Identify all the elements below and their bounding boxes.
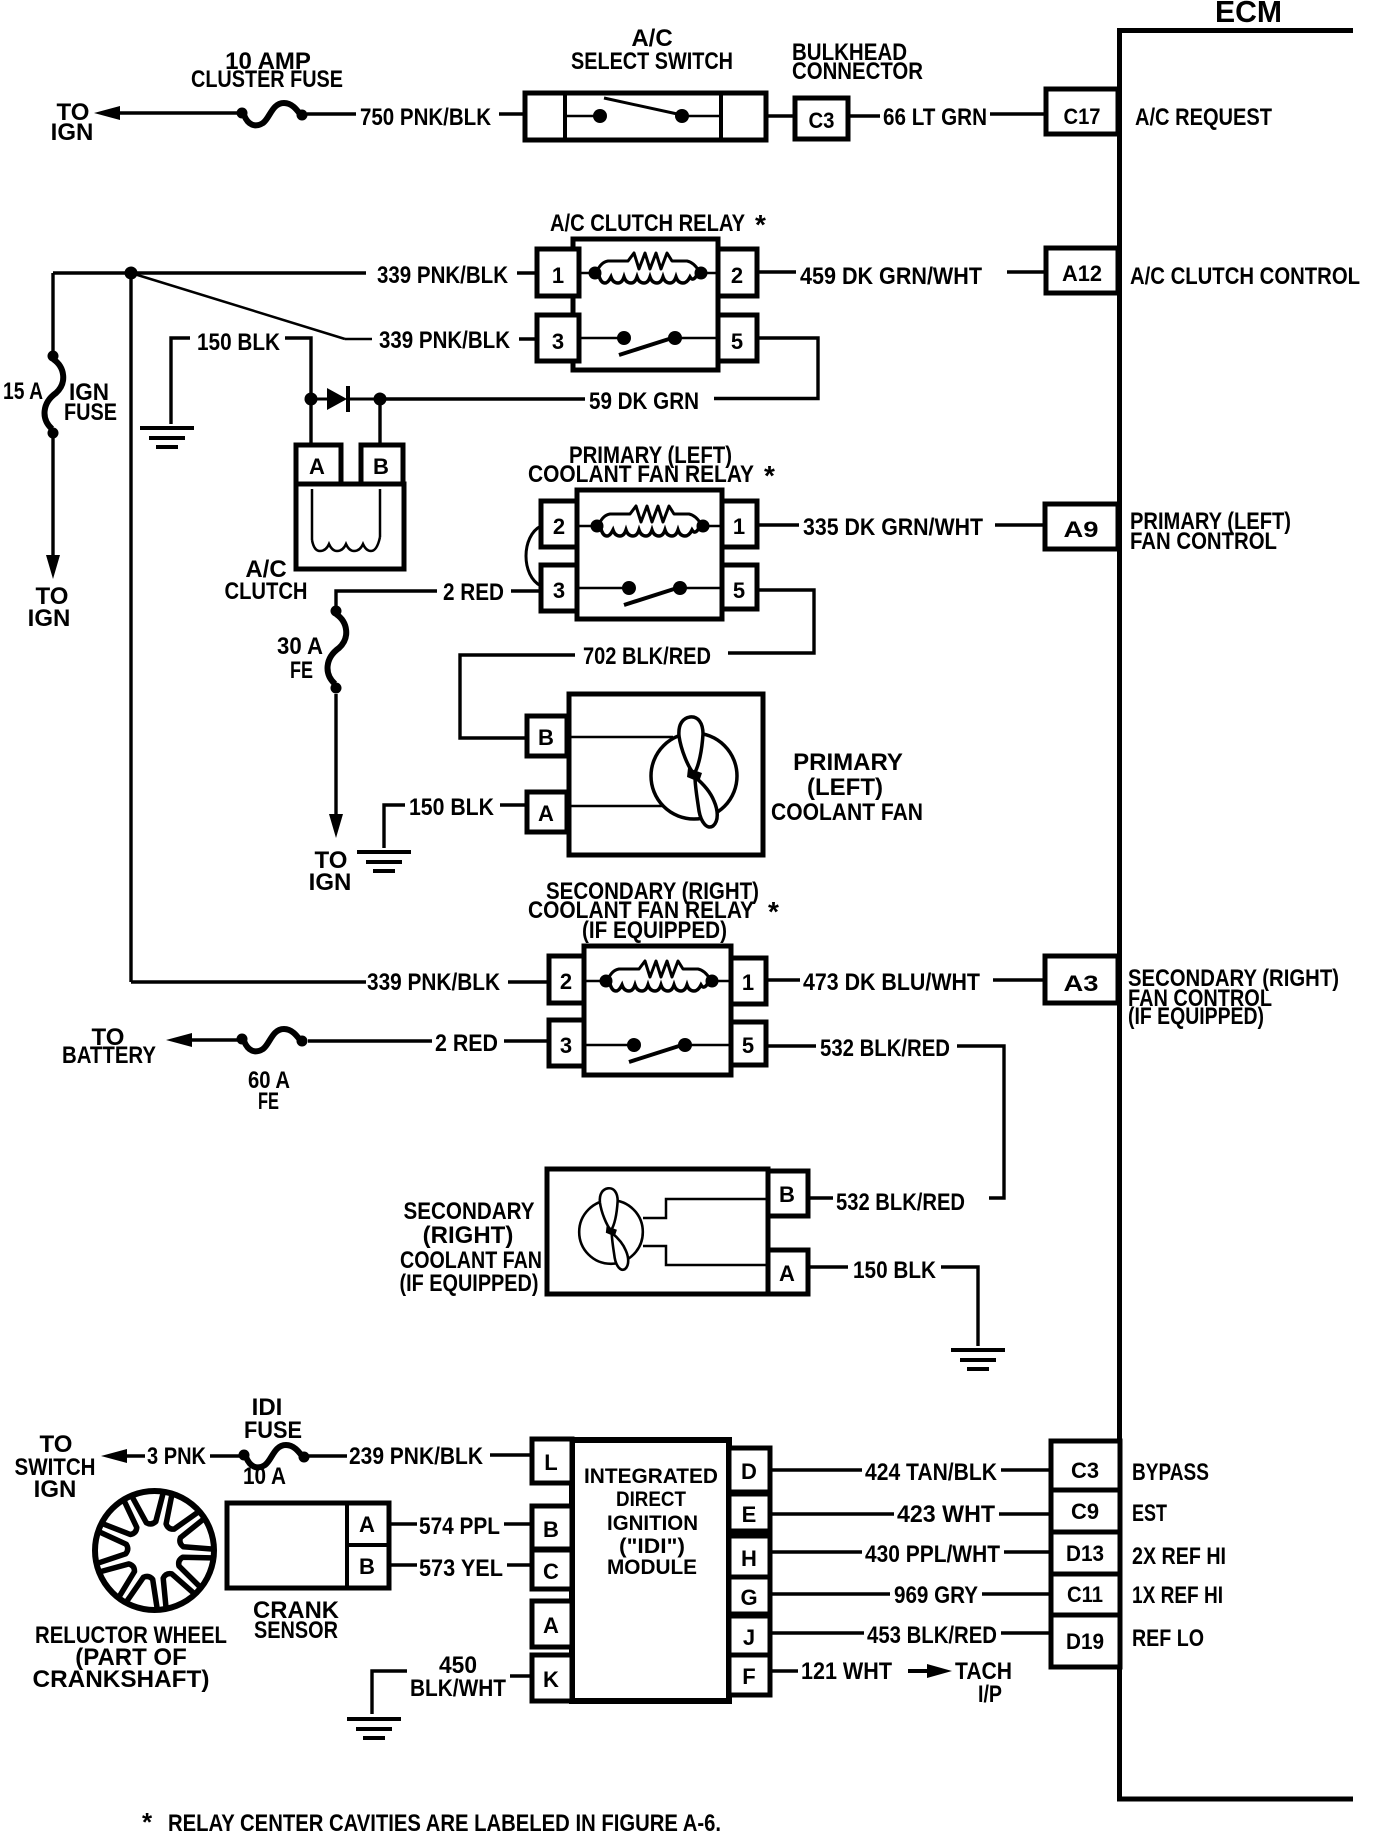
- wire 339 PNK/BLK long vertical feed: [129, 273, 132, 982]
- arrow to switch ign: [101, 1449, 127, 1463]
- svg-text:F: F: [742, 1664, 755, 1689]
- primary fan internal wiring: [567, 736, 673, 739]
- svg-text:COOLANT FAN: COOLANT FAN: [771, 799, 923, 826]
- svg-text:IGN: IGN: [309, 869, 352, 896]
- svg-text:EST: EST: [1132, 1500, 1167, 1527]
- junction node diode anode: [305, 393, 318, 406]
- svg-text:FUSE: FUSE: [64, 399, 117, 426]
- svg-text:2: 2: [731, 263, 743, 288]
- svg-text:D: D: [741, 1459, 757, 1484]
- wire diode node to clutch pin A: [309, 399, 312, 445]
- svg-text:15 A: 15 A: [3, 378, 43, 405]
- wire battery feed: [190, 1038, 242, 1041]
- svg-text:A: A: [538, 801, 554, 826]
- relay K1 pin 1: [537, 249, 579, 296]
- IDI pin E: [729, 1494, 770, 1531]
- wire 750 PNK/BLK: [307, 112, 356, 115]
- ECM connector C9 (EST): [1051, 1490, 1120, 1532]
- arrow to IGN: [94, 106, 120, 120]
- svg-text:3: 3: [560, 1033, 572, 1058]
- svg-text:A: A: [359, 1512, 375, 1537]
- wire 335 DK GRN/WHT to ECM A9: [757, 523, 799, 526]
- svg-text:SENSOR: SENSOR: [254, 1617, 338, 1644]
- wire 150 BLK to diode node: [285, 338, 311, 395]
- secondary fan pin B: [768, 1171, 808, 1216]
- wire 150 BLK secondary fan ground: [808, 1265, 848, 1268]
- wire 430 PPL/WHT to ECM D13: [770, 1550, 862, 1553]
- svg-text:339 PNK/BLK: 339 PNK/BLK: [367, 969, 501, 996]
- ECM connector D19 (REF LO): [1051, 1615, 1120, 1667]
- junction node 339 feed: [125, 267, 138, 280]
- wire 473 DK BLU/WHT to ECM A3: [766, 978, 800, 981]
- svg-text:2: 2: [553, 514, 565, 539]
- svg-text:339 PNK/BLK: 339 PNK/BLK: [379, 327, 511, 354]
- svg-text:59 DK GRN: 59 DK GRN: [589, 388, 699, 415]
- svg-text:E: E: [742, 1502, 757, 1527]
- svg-text:("IDI"): ("IDI"): [619, 1535, 685, 1558]
- IDI pin A: [532, 1601, 572, 1647]
- svg-text:B: B: [538, 725, 554, 750]
- svg-text:I/P: I/P: [978, 1681, 1002, 1708]
- svg-text:473 DK BLU/WHT: 473 DK BLU/WHT: [803, 969, 980, 996]
- IDI pin D: [729, 1448, 770, 1492]
- svg-text:REF LO: REF LO: [1132, 1625, 1204, 1652]
- svg-text:CLUTCH: CLUTCH: [225, 578, 308, 605]
- primary coolant fan motor body: [569, 694, 763, 855]
- wire 239 PNK/BLK to IDI pin L: [308, 1454, 347, 1457]
- A/C clutch pin A: [296, 445, 341, 484]
- svg-text:*: *: [768, 896, 779, 927]
- svg-text:C3: C3: [809, 108, 835, 133]
- svg-text:5: 5: [733, 578, 745, 603]
- IDI pin F: [729, 1655, 770, 1695]
- crank sensor body: [227, 1503, 389, 1588]
- ECM module outline: [1120, 31, 1354, 1800]
- relay K3 secondary fan relay body: [584, 946, 731, 1075]
- svg-text:(LEFT): (LEFT): [807, 774, 883, 801]
- wire 2 RED to primary fan relay pin 3: [336, 591, 437, 607]
- ECM connector A12: [1046, 248, 1118, 293]
- svg-text:IGN: IGN: [34, 1476, 77, 1503]
- relay K1 pin 5: [718, 315, 757, 361]
- svg-text:D13: D13: [1066, 1541, 1104, 1566]
- svg-text:K: K: [543, 1667, 559, 1692]
- svg-text:C9: C9: [1071, 1499, 1099, 1524]
- svg-text:IGNITION: IGNITION: [607, 1512, 698, 1535]
- svg-text:2 RED: 2 RED: [435, 1030, 498, 1057]
- svg-text:BYPASS: BYPASS: [1132, 1459, 1209, 1486]
- svg-text:423 WHT: 423 WHT: [897, 1501, 995, 1528]
- wire 969 GRY to ECM C11: [770, 1592, 890, 1595]
- svg-text:L: L: [544, 1450, 557, 1475]
- relay K3 pin 3: [549, 1020, 584, 1066]
- svg-text:PRIMARY: PRIMARY: [793, 749, 903, 776]
- svg-text:A9: A9: [1064, 517, 1099, 542]
- wire diode node to clutch pin B: [378, 399, 381, 445]
- relay K1 switch contacts: [579, 337, 624, 340]
- primary fan pin B: [527, 716, 567, 756]
- svg-text:1: 1: [742, 970, 754, 995]
- svg-text:SELECT SWITCH: SELECT SWITCH: [571, 48, 733, 75]
- IDI module U1 body: [572, 1440, 729, 1701]
- svg-text:3 PNK: 3 PNK: [147, 1443, 207, 1470]
- wire TO IGN to cluster fuse: [118, 111, 242, 114]
- svg-text:FE: FE: [258, 1088, 279, 1115]
- relay K1 pin 3: [537, 315, 579, 361]
- wire 339 PNK/BLK to relay pin 1: [53, 271, 366, 274]
- svg-text:C: C: [543, 1559, 559, 1584]
- wire feed to 15A IGN fuse: [51, 273, 54, 354]
- wire 532 BLK/RED at secondary fan pin B: [808, 1196, 833, 1199]
- IDI pin C: [532, 1550, 572, 1589]
- secondary coolant fan motor body: [547, 1169, 768, 1294]
- svg-text:B: B: [779, 1182, 795, 1207]
- IDI pin L: [532, 1439, 572, 1483]
- wire 532 BLK/RED down to secondary fan: [957, 1046, 1004, 1198]
- wire 453 BLK/RED to ECM D19: [770, 1631, 864, 1634]
- svg-text:A/C REQUEST: A/C REQUEST: [1135, 104, 1272, 131]
- svg-text:A: A: [779, 1261, 795, 1286]
- svg-text:B: B: [543, 1517, 559, 1542]
- secondary fan pin A: [768, 1250, 808, 1294]
- relay K2 pin 1: [722, 501, 757, 547]
- svg-text:FUSE: FUSE: [244, 1417, 302, 1444]
- relay K1 pin 2: [718, 249, 757, 296]
- svg-text:CLUSTER FUSE: CLUSTER FUSE: [191, 66, 343, 93]
- IDI pin K: [532, 1655, 572, 1701]
- svg-text:335 DK GRN/WHT: 335 DK GRN/WHT: [803, 514, 983, 541]
- fuse 60 A FE fusible link: [237, 1029, 308, 1051]
- fuse 10A cluster fuse: [237, 103, 308, 125]
- svg-text:*: *: [142, 1807, 153, 1834]
- fuse 15 A IGN FUSE: [45, 351, 64, 439]
- svg-text:CONNECTOR: CONNECTOR: [792, 58, 923, 85]
- junction node diode cathode: [374, 393, 387, 406]
- ECM connector C11 (1X REF HI): [1051, 1574, 1120, 1615]
- svg-text:424 TAN/BLK: 424 TAN/BLK: [865, 1459, 998, 1486]
- ground secondary fan: [951, 1350, 1005, 1369]
- svg-text:CRANKSHAFT): CRANKSHAFT): [33, 1666, 210, 1693]
- svg-text:G: G: [740, 1585, 757, 1610]
- wire 66 LT GRN: [848, 114, 880, 117]
- primary fan pin A: [527, 792, 567, 832]
- svg-text:574 PPL: 574 PPL: [419, 1513, 500, 1540]
- wire relay K2 pin 5 to 702 BLK/RED: [728, 590, 814, 653]
- svg-text:121 WHT: 121 WHT: [801, 1658, 892, 1685]
- svg-text:A12: A12: [1062, 261, 1102, 286]
- relay K2 switch contacts: [577, 587, 629, 590]
- svg-text:3: 3: [553, 578, 565, 603]
- wire 573 YEL to IDI pin C: [389, 1563, 417, 1566]
- IDI pin J: [729, 1616, 770, 1655]
- svg-text:BATTERY: BATTERY: [62, 1042, 156, 1069]
- svg-text:INTEGRATED: INTEGRATED: [584, 1465, 718, 1488]
- svg-text:H: H: [741, 1546, 757, 1571]
- bulkhead connector C3: [795, 98, 848, 139]
- svg-text:A/C CLUTCH CONTROL: A/C CLUTCH CONTROL: [1130, 263, 1360, 290]
- svg-text:A3: A3: [1064, 971, 1099, 996]
- relay K2 pin 2: [541, 501, 577, 547]
- svg-text:D19: D19: [1066, 1629, 1104, 1654]
- svg-text:453 BLK/RED: 453 BLK/RED: [867, 1622, 997, 1649]
- relay K2 pin2-pin3 link arc: [526, 526, 541, 586]
- wire relay K1 pin 5 to 59 DK GRN: [714, 338, 818, 399]
- IDI pin G: [729, 1577, 770, 1614]
- svg-text:150 BLK: 150 BLK: [853, 1257, 937, 1284]
- svg-text:339 PNK/BLK: 339 PNK/BLK: [377, 262, 509, 289]
- svg-text:MODULE: MODULE: [607, 1556, 697, 1579]
- ECM connector D13 (2X REF HI): [1051, 1532, 1120, 1574]
- wire 339 PNK/BLK to relay K3 pin 2: [131, 980, 366, 983]
- svg-text:(IF EQUIPPED): (IF EQUIPPED): [1128, 1003, 1264, 1030]
- relay K3 switch contacts: [584, 1044, 634, 1047]
- wire 121 WHT to TACH I/P: [770, 1669, 798, 1672]
- arrow to battery: [166, 1033, 192, 1047]
- fuse IDI FUSE 10 A: [239, 1445, 310, 1467]
- svg-text:66 LT GRN: 66 LT GRN: [883, 104, 987, 131]
- wire to IGN with arrow (30A): [334, 694, 337, 816]
- svg-text:30 A: 30 A: [277, 633, 323, 660]
- ECM connector A3: [1045, 956, 1118, 1003]
- wire switch to bulkhead connector: [766, 114, 795, 117]
- relay K2 primary fan relay body: [577, 490, 722, 619]
- wire to IGN with arrow: [51, 437, 54, 558]
- IDI pin B: [532, 1506, 572, 1549]
- svg-text:1X REF HI: 1X REF HI: [1132, 1582, 1223, 1609]
- relay K2 coil: [577, 525, 599, 528]
- wire relay K3 pin 5 to 532 BLK/RED: [766, 1044, 816, 1047]
- svg-text:532 BLK/RED: 532 BLK/RED: [820, 1035, 950, 1062]
- svg-text:3: 3: [552, 329, 564, 354]
- svg-text:RELAY CENTER CAVITIES ARE LABE: RELAY CENTER CAVITIES ARE LABELED IN FIG…: [168, 1810, 721, 1834]
- IDI pin H: [729, 1536, 770, 1577]
- A/C clutch coil body: [296, 484, 404, 569]
- svg-text:5: 5: [731, 329, 743, 354]
- svg-text:*: *: [755, 209, 766, 240]
- svg-text:ECM: ECM: [1215, 0, 1282, 29]
- relay K3 pin 1: [731, 958, 766, 1004]
- wire 424 TAN/BLK to ECM C3: [770, 1468, 862, 1471]
- secondary fan internal wiring: [643, 1199, 768, 1218]
- svg-text:1: 1: [552, 263, 564, 288]
- svg-text:B: B: [373, 454, 389, 479]
- svg-text:BLK/WHT: BLK/WHT: [410, 1675, 506, 1702]
- svg-text:FAN CONTROL: FAN CONTROL: [1130, 528, 1277, 555]
- svg-text:573 YEL: 573 YEL: [419, 1555, 503, 1582]
- relay K3 pin 2: [549, 956, 584, 1003]
- svg-text:(IF EQUIPPED): (IF EQUIPPED): [400, 1270, 539, 1297]
- svg-text:COOLANT FAN RELAY: COOLANT FAN RELAY: [528, 461, 754, 488]
- svg-text:10 A: 10 A: [243, 1463, 286, 1490]
- primary fan motor symbol: [651, 717, 737, 827]
- relay K3 coil: [584, 980, 608, 983]
- relay K1 A/C clutch relay body: [573, 239, 718, 370]
- relay K1 coil: [579, 272, 597, 275]
- svg-text:SECONDARY: SECONDARY: [404, 1198, 535, 1225]
- A/C clutch pin B: [361, 445, 403, 484]
- svg-text:239 PNK/BLK: 239 PNK/BLK: [349, 1443, 484, 1470]
- svg-text:430 PPL/WHT: 430 PPL/WHT: [865, 1541, 1000, 1568]
- svg-text:969 GRY: 969 GRY: [894, 1582, 978, 1609]
- svg-text:C11: C11: [1067, 1582, 1103, 1607]
- svg-text:B: B: [359, 1554, 375, 1579]
- svg-text:(RIGHT): (RIGHT): [423, 1222, 514, 1249]
- wire 339 PNK/BLK to relay pin 3 (diagonal): [131, 273, 345, 339]
- svg-text:C17: C17: [1064, 104, 1101, 129]
- ECM connector C3 (BYPASS): [1051, 1441, 1120, 1490]
- secondary fan motor symbol: [579, 1188, 643, 1270]
- fuse 30 A FE fusible link: [328, 606, 347, 694]
- svg-text:IGN: IGN: [28, 605, 71, 632]
- svg-text:DIRECT: DIRECT: [616, 1488, 686, 1511]
- ECM connector A9: [1045, 504, 1118, 549]
- svg-text:459 DK GRN/WHT: 459 DK GRN/WHT: [800, 263, 982, 290]
- svg-text:A/C CLUTCH RELAY: A/C CLUTCH RELAY: [550, 210, 745, 237]
- svg-text:532 BLK/RED: 532 BLK/RED: [836, 1189, 965, 1216]
- wire 2 RED to relay K3 pin 3: [308, 1039, 432, 1042]
- wire 574 PPL to IDI pin B: [389, 1522, 417, 1525]
- svg-text:C3: C3: [1071, 1458, 1099, 1483]
- relay K2 pin 3: [541, 565, 577, 611]
- svg-text:FE: FE: [290, 657, 313, 684]
- svg-text:150 BLK: 150 BLK: [197, 329, 281, 356]
- svg-text:5: 5: [742, 1033, 754, 1058]
- reluctor wheel symbol: [95, 1491, 214, 1610]
- svg-text:(IF EQUIPPED): (IF EQUIPPED): [582, 917, 727, 944]
- svg-text:J: J: [743, 1625, 755, 1650]
- ground IDI 450 BLK/WHT: [347, 1719, 401, 1738]
- diode CR1 clutch suppression: [327, 388, 347, 410]
- wire 423 WHT to ECM C9: [770, 1512, 894, 1515]
- svg-text:IGN: IGN: [51, 119, 94, 146]
- svg-text:2 RED: 2 RED: [443, 579, 504, 606]
- svg-text:750 PNK/BLK: 750 PNK/BLK: [360, 104, 492, 131]
- svg-text:A: A: [309, 454, 325, 479]
- svg-text:702 BLK/RED: 702 BLK/RED: [583, 643, 711, 670]
- ground clutch 150 BLK: [140, 428, 194, 447]
- svg-text:A: A: [543, 1613, 559, 1638]
- wire 459 DK GRN/WHT to ECM A12: [757, 270, 796, 273]
- relay K2 pin 5: [722, 565, 757, 609]
- svg-text:2: 2: [560, 969, 572, 994]
- svg-text:2X REF HI: 2X REF HI: [1132, 1543, 1226, 1570]
- svg-text:150 BLK: 150 BLK: [409, 794, 495, 821]
- ground primary fan: [357, 852, 411, 871]
- A/C select switch S1: [525, 93, 766, 140]
- svg-text:*: *: [764, 460, 775, 491]
- svg-text:1: 1: [733, 514, 745, 539]
- relay K3 pin 5: [731, 1022, 766, 1065]
- ECM connector C17: [1046, 89, 1118, 134]
